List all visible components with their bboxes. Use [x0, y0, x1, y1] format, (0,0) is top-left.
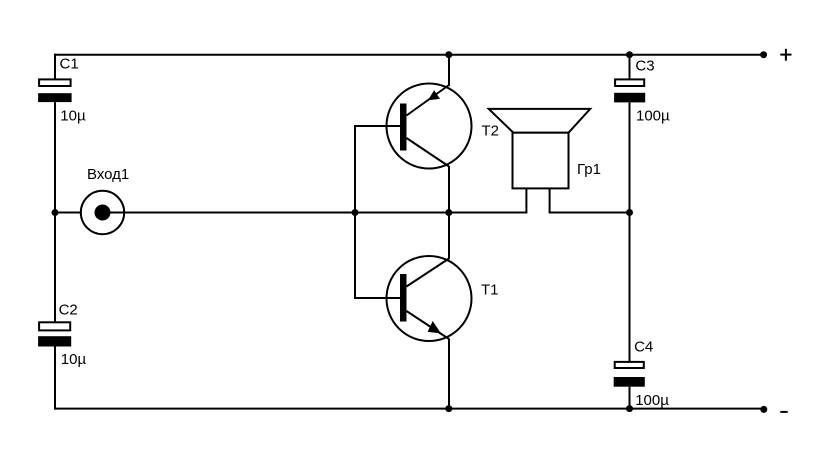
- capacitor C4: [614, 362, 645, 387]
- wire C3 to C4 (through mid junction): [629, 102, 631, 361]
- svg-text:10µ: 10µ: [60, 108, 86, 125]
- wire bottom rail: [54, 408, 764, 410]
- transistor T1: [387, 256, 472, 341]
- speaker Гр1: [489, 109, 591, 188]
- wire T2 emitter to top rail: [448, 55, 450, 86]
- junction dot (top rail / C3): [626, 51, 633, 58]
- transistor T2: [387, 84, 472, 169]
- junction dot (input line / base vertical): [352, 209, 359, 216]
- wire input to bases and speaker left leg: [103, 212, 527, 214]
- capacitor C1: [38, 79, 72, 102]
- svg-text:100µ: 100µ: [636, 107, 670, 124]
- wire left vertical lower (C2 to bottom rail): [54, 347, 56, 410]
- junction dot (collector node): [445, 209, 452, 216]
- svg-text:C3: C3: [635, 57, 654, 74]
- terminal dot minus: [760, 406, 767, 413]
- wire top rail: [54, 54, 764, 56]
- wire input stub (left wire to jack): [55, 212, 81, 214]
- label - terminal: [780, 411, 787, 413]
- junction dot (mid wire / C3-C4 line): [626, 209, 633, 216]
- wire T1 base lead: [354, 297, 400, 299]
- svg-text:Вход1: Вход1: [87, 166, 129, 183]
- svg-text:C4: C4: [634, 338, 653, 355]
- wire speaker right leg to C3/C4 line: [550, 188, 630, 212]
- wire T1 emitter to bottom rail: [448, 339, 450, 410]
- svg-text:C2: C2: [59, 301, 78, 318]
- svg-text:100µ: 100µ: [635, 392, 669, 409]
- wire T2 collector to T1 collector: [448, 166, 450, 259]
- svg-text:10µ: 10µ: [61, 351, 87, 368]
- capacitor C2: [38, 322, 71, 346]
- junction dot (bottom rail / T1 emitter): [445, 405, 452, 412]
- label + terminal: [780, 49, 791, 61]
- svg-text:Гр1: Гр1: [577, 161, 601, 178]
- wire speaker left leg: [525, 188, 527, 213]
- terminal dot plus: [760, 51, 767, 58]
- wire C4 to bottom rail: [629, 387, 631, 410]
- wire left vertical middle (C1 to C2): [54, 102, 56, 322]
- svg-text:C1: C1: [60, 56, 79, 73]
- connector Вход1 (input jack): [81, 191, 124, 234]
- wire T2 base lead: [354, 125, 400, 127]
- wire C3 top (rail to C3): [629, 54, 631, 79]
- wire base vertical (T2 base to T1 base): [354, 125, 356, 299]
- wire left vertical upper (rail corner to C1): [54, 54, 56, 79]
- svg-text:T1: T1: [481, 282, 499, 299]
- junction dot (left wire / input): [52, 209, 59, 216]
- svg-text:T2: T2: [482, 123, 500, 140]
- junction dot (top rail / T2 emitter): [445, 51, 452, 58]
- capacitor C3: [614, 79, 645, 102]
- junction dot (bottom rail / C4): [626, 405, 633, 412]
